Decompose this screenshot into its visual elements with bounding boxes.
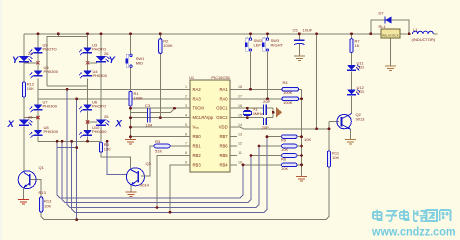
watermark chinese char 1 dian [373, 210, 382, 221]
svg-text:LED: LED [357, 89, 365, 94]
photodiode U4 [79, 69, 108, 78]
switch SW2 [245, 38, 264, 51]
resistor R7 [350, 39, 360, 53]
svg-text:10: 10 [238, 161, 242, 165]
svg-text:100K: 100K [283, 100, 293, 105]
wire link Y right [88, 62, 98, 64]
wire relay loop [371, 20, 385, 34]
wire link h2 [57, 147, 77, 149]
svg-text:14: 14 [238, 123, 242, 127]
wire Q2 base R11 vertical [328, 122, 330, 151]
chip pin names left [193, 87, 214, 168]
node X-junction right bottom [86, 120, 89, 123]
svg-text:www.cndzz.com: www.cndzz.com [371, 226, 455, 239]
svg-text:26: 26 [104, 114, 109, 119]
wire R13 bottom to bus [41, 167, 329, 220]
switch SW3 [262, 38, 283, 51]
wire pin2 drop [76, 99, 78, 220]
node bus dots [242, 164, 245, 167]
wire link X left [24, 117, 38, 119]
ground resistor bank [296, 177, 307, 182]
svg-text:26: 26 [28, 115, 33, 120]
svg-text:PHOTO: PHOTO [43, 47, 57, 52]
wire chain diode right x=87.5 [87, 34, 89, 48]
ground Q2 [345, 140, 356, 145]
svg-text:15: 15 [238, 113, 242, 117]
svg-text:PHOTO: PHOTO [92, 104, 106, 109]
wire LED chain x=349.5 [351, 34, 353, 39]
resistor bank R6 [251, 154, 302, 162]
wire R2 chain [159, 34, 161, 39]
svg-text:10K: 10K [44, 204, 51, 209]
svg-text:PH0300: PH0300 [43, 104, 58, 109]
wire top rail [24, 33, 409, 35]
svg-text:X: X [115, 119, 123, 130]
svg-text:PH0300: PH0300 [44, 129, 59, 134]
svg-text:104: 104 [146, 123, 153, 128]
svg-text:6: 6 [185, 132, 187, 136]
svg-text:13: 13 [238, 132, 242, 136]
node X-junction left top [36, 61, 39, 64]
ground crystal sideways arrow [276, 107, 282, 118]
photodiode U3 [79, 43, 106, 56]
relay RL1 [379, 24, 401, 38]
svg-text:9013: 9013 [356, 117, 366, 122]
wire SW3 drop [267, 34, 269, 38]
svg-text:U1: U1 [189, 75, 195, 80]
svg-text:MID: MID [136, 61, 143, 66]
wire link X right [88, 121, 98, 123]
wire crystal joint [272, 108, 274, 118]
svg-text:D7: D7 [379, 11, 385, 16]
diode D7 [379, 11, 392, 24]
svg-text:R4: R4 [283, 80, 289, 85]
ground relay [385, 66, 396, 71]
svg-text:V₅₅: V₅₅ [193, 125, 199, 130]
resistor R2 [159, 39, 173, 54]
svg-text:9: 9 [185, 161, 187, 165]
photodiode U10 [79, 125, 107, 138]
crystal X1 [243, 107, 263, 116]
svg-text:PH0300: PH0300 [44, 69, 59, 74]
svg-text:11: 11 [238, 151, 242, 155]
svg-text:T0CKI: T0CKI [193, 106, 205, 111]
wire relay ground stem [389, 38, 391, 66]
svg-text:RB0: RB0 [193, 134, 202, 139]
resistor R3 [154, 139, 170, 154]
node X-junction right top [86, 61, 89, 64]
resistor R5 [282, 97, 299, 105]
wire inner box stub from rail [57, 34, 59, 37]
wire R8 to Q3 collector [101, 152, 130, 168]
node chip-left dots [129, 107, 132, 110]
resistor R13 [39, 190, 53, 212]
wire bus P1 [57, 141, 243, 198]
wire osc pin15 [230, 117, 264, 119]
svg-text:RA3: RA3 [193, 96, 202, 101]
left white edge [0, 0, 2, 240]
wire chain diode left x=38 [37, 34, 39, 48]
LED Y right [96, 51, 110, 62]
wire pin4 MCLR [131, 117, 191, 119]
wire bridge bottom [38, 140, 100, 142]
svg-text:RB3: RB3 [193, 162, 202, 167]
watermark chinese char 2 zi [386, 211, 398, 221]
node rail dots [37, 32, 40, 35]
LED U11 [347, 61, 364, 71]
LED Y left [19, 56, 33, 62]
svg-text:X: X [7, 119, 15, 130]
wire pin17 RA0 to R5 [230, 98, 282, 100]
svg-text:RELAY/SCK: RELAY/SCK [382, 33, 399, 37]
wire crystal stubs [246, 108, 248, 110]
node crystal dots [246, 107, 249, 110]
transistor Q2 [337, 112, 365, 130]
wire pin6 RB0 [131, 136, 191, 138]
svg-text:OSC2: OSC2 [216, 115, 228, 120]
svg-text:MCLR/Vpp: MCLR/Vpp [193, 115, 214, 120]
wire C5 stem [298, 34, 300, 40]
node bridge bottom dots [86, 140, 89, 143]
svg-text:RB1: RB1 [193, 144, 202, 149]
svg-text:VDD: VDD [219, 125, 228, 130]
resistor bank R10 [259, 144, 302, 152]
resistor bank R9 [267, 135, 311, 143]
svg-text:100K: 100K [283, 90, 293, 95]
wire pullup vertical x=301.5 [301, 89, 303, 176]
node switch dots [249, 88, 252, 91]
svg-text:9014: 9014 [140, 183, 150, 188]
chip pin numbers [185, 85, 242, 165]
svg-text:RA1: RA1 [219, 87, 228, 92]
ground Q1 [18, 200, 29, 205]
svg-text:PH0300: PH0300 [93, 73, 108, 78]
svg-text:R3: R3 [155, 139, 161, 144]
wire VDD drop x=316.6 [316, 34, 318, 129]
svg-text:1: 1 [185, 85, 187, 89]
svg-text:OSC1: OSC1 [216, 106, 228, 111]
svg-text:RA2: RA2 [193, 87, 202, 92]
resistor R4 [282, 80, 299, 95]
node VDD dots [315, 127, 318, 130]
svg-text:18: 18 [238, 85, 242, 89]
photodiode U7 [30, 100, 58, 113]
watermark chinese char 5 tu [426, 210, 437, 221]
svg-text:RB2: RB2 [193, 153, 202, 158]
svg-text:RB4: RB4 [219, 162, 228, 167]
svg-text:C3: C3 [145, 103, 151, 108]
svg-text:20P: 20P [262, 125, 269, 130]
wire pin7 RB1 to R3 [170, 145, 190, 147]
svg-text:PIC16C55: PIC16C55 [211, 75, 230, 80]
svg-text:2: 2 [185, 95, 187, 99]
svg-text:10K: 10K [281, 166, 288, 171]
ground C5 [294, 56, 305, 61]
svg-text:3: 3 [185, 104, 187, 108]
wire Q1 base to R13 [30, 180, 41, 197]
wire pin14 VDD [230, 127, 329, 129]
watermark chinese char 3 dian [400, 210, 409, 221]
wire link Y left [24, 62, 38, 64]
watermark chinese char 6 wang [440, 210, 451, 221]
svg-text:R6: R6 [281, 157, 287, 162]
svg-text:PH0300: PH0300 [92, 129, 107, 134]
wire C3 branch [131, 111, 148, 113]
capacitor C3 [145, 103, 153, 128]
wire chain right x=101 [100, 34, 102, 56]
wire inner box bottom [47, 85, 88, 87]
photodiode U9 [30, 43, 57, 56]
svg-text:Q1: Q1 [39, 165, 45, 170]
inductor L1 [412, 27, 436, 42]
svg-text:1K: 1K [355, 43, 360, 48]
LED X right [96, 114, 110, 126]
wire Q2 emitter to ground [350, 129, 352, 139]
chip pin names right [216, 87, 228, 168]
wire osc pin16 [230, 107, 264, 109]
wire pin8 RB2 down [157, 156, 190, 208]
node X-junction left bottom [36, 116, 39, 119]
svg-text:R13: R13 [39, 190, 47, 195]
svg-text:Q3: Q3 [146, 161, 152, 166]
ground R1 chain [125, 140, 136, 145]
photodiode U8 [30, 125, 59, 138]
resistor bank R14 [243, 163, 302, 171]
svg-text:51K: 51K [155, 149, 162, 154]
capacitor C5 [293, 28, 313, 45]
svg-text:C5: C5 [293, 28, 299, 33]
wire inductor tail [433, 33, 437, 35]
svg-text:L1: L1 [413, 27, 418, 32]
svg-text:100K: 100K [163, 43, 173, 48]
svg-text:4: 4 [185, 113, 187, 117]
svg-text:4MHz: 4MHz [253, 111, 263, 116]
svg-text:10K: 10K [27, 86, 34, 91]
junction X marks [36, 61, 89, 124]
svg-text:17: 17 [238, 95, 242, 99]
wire inner box top [47, 36, 88, 86]
svg-text:RIGHT: RIGHT [271, 43, 284, 48]
node pullup dots [300, 97, 303, 100]
resistor R11 [327, 151, 339, 168]
svg-text:5: 5 [185, 123, 187, 127]
wire pin3 T0CKI [131, 107, 191, 109]
svg-text:RB7: RB7 [219, 134, 228, 139]
svg-text:(INDUCTOR): (INDUCTOR) [412, 37, 436, 42]
capacitor C1 20P [263, 99, 270, 115]
wire pin2 RA3 [38, 98, 190, 100]
photodiode U5 [30, 65, 59, 78]
svg-text:RB6: RB6 [219, 144, 228, 149]
LED U12 [347, 85, 365, 95]
ground Q3 [126, 192, 137, 197]
svg-text:R9: R9 [281, 138, 287, 143]
resistor R8 [99, 142, 111, 152]
watermark chinese char 4 lu [414, 210, 427, 221]
svg-text:7: 7 [185, 142, 187, 146]
svg-text:RA0: RA0 [219, 96, 228, 101]
svg-text:16: 16 [238, 104, 242, 108]
photodiode U6 [79, 100, 106, 113]
wire bus P4 [72, 137, 267, 213]
switch SW1 [126, 54, 146, 67]
wire bus P3 [67, 89, 259, 207]
wire chain left x=24 vertical [23, 34, 25, 56]
wire SW1 chain [130, 34, 132, 54]
svg-text:100K: 100K [134, 96, 144, 101]
LED X left [19, 120, 33, 126]
IC U1 PIC16C55 body [189, 75, 231, 172]
svg-text:LED: LED [357, 65, 365, 70]
svg-text:8: 8 [185, 151, 187, 155]
resistor R1 [129, 91, 143, 106]
capacitor C2 20P [262, 118, 269, 130]
chip pin stubs [183, 89, 237, 165]
svg-text:130: 130 [104, 146, 111, 151]
wire Q3 base branch [107, 141, 126, 174]
wire pin5 Vss [131, 126, 191, 128]
wire pin18 RA1 to R4 [230, 88, 282, 90]
svg-text:RL1: RL1 [379, 24, 387, 29]
svg-text:12: 12 [238, 142, 242, 146]
wire SW2 drop [250, 34, 252, 38]
svg-text:10K: 10K [281, 147, 288, 152]
wire pin1 RA2 [38, 88, 190, 90]
wire bus P2 [62, 141, 251, 202]
wire R3 to Q3 base [141, 146, 154, 176]
svg-text:10UF: 10UF [303, 28, 313, 33]
svg-text:10K: 10K [332, 155, 339, 160]
transistor Q1 [18, 165, 44, 200]
wire pin9 RB3 down [170, 165, 190, 212]
transistor Q3 [126, 161, 151, 192]
svg-text:10K: 10K [304, 137, 311, 142]
resistor R12 [22, 82, 35, 98]
svg-text:RB5: RB5 [219, 153, 228, 158]
